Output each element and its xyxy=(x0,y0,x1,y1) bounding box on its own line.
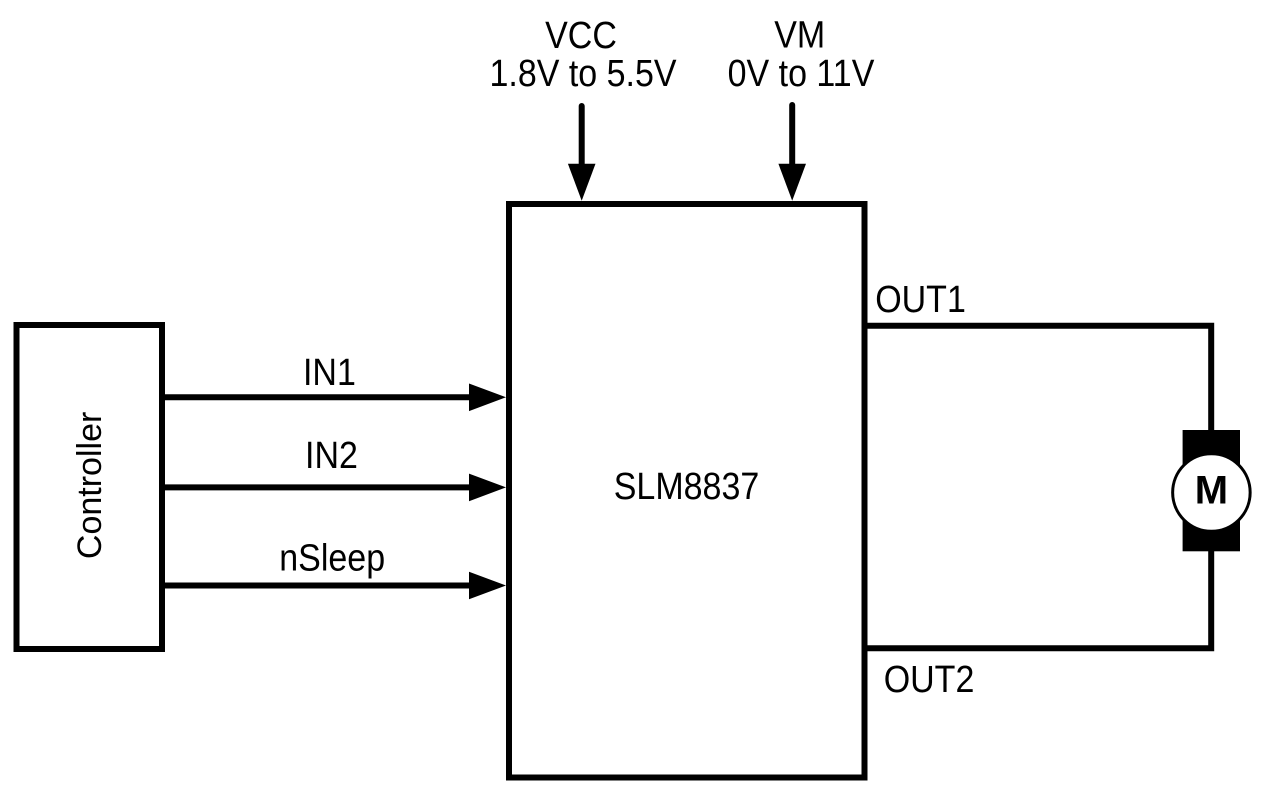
svg-text:nSleep: nSleep xyxy=(279,535,385,578)
svg-text:VM: VM xyxy=(774,12,825,55)
svg-text:OUT2: OUT2 xyxy=(884,657,975,700)
svg-text:1.8V to 5.5V: 1.8V to 5.5V xyxy=(489,51,677,94)
svg-text:IN2: IN2 xyxy=(305,433,358,476)
svg-text:M: M xyxy=(1195,468,1228,512)
svg-text:IN1: IN1 xyxy=(303,350,356,393)
svg-text:VCC: VCC xyxy=(545,13,617,56)
svg-text:OUT1: OUT1 xyxy=(875,277,966,320)
svg-text:SLM8837: SLM8837 xyxy=(614,464,760,507)
svg-text:Controller: Controller xyxy=(71,412,109,559)
svg-text:0V to 11V: 0V to 11V xyxy=(728,51,876,94)
